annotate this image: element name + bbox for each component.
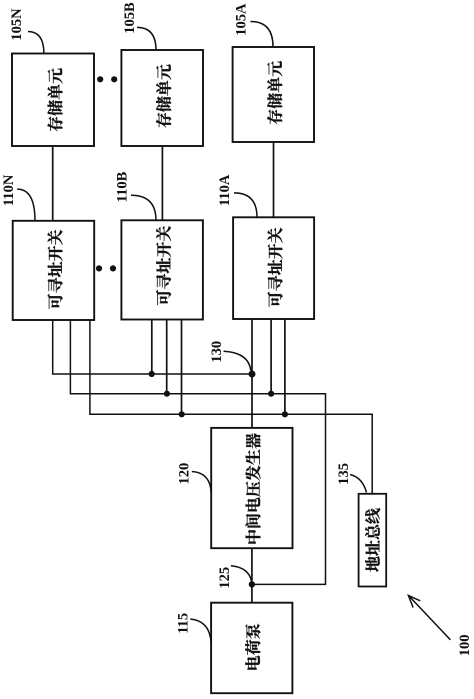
label 100	[457, 635, 473, 657]
leader 120	[192, 472, 212, 495]
wire 110N out3 + bus3	[90, 320, 372, 494]
svg-text:135: 135	[336, 463, 352, 485]
svg-text:105A: 105A	[233, 3, 249, 36]
memory cell text 105B	[156, 64, 171, 127]
ellipsis dot row1 b	[111, 76, 117, 82]
wire 110A out1 node130 to generator	[251, 319, 253, 428]
svg-text:125: 125	[217, 567, 233, 589]
ellipsis dot row2 b	[110, 265, 116, 271]
charge pump box 115	[211, 603, 292, 694]
charge pump text	[245, 624, 260, 670]
wire 110A out3	[284, 319, 286, 414]
svg-text:105B: 105B	[122, 2, 138, 34]
addressable switch box 110B	[121, 220, 202, 319]
addressable switch text 110N	[47, 230, 62, 309]
leader 125	[231, 566, 252, 582]
leader 110A	[234, 193, 257, 217]
svg-text:130: 130	[209, 341, 225, 363]
addressable switch text 110B	[156, 226, 171, 305]
address bus box 135	[359, 494, 387, 587]
leader 130	[224, 351, 251, 370]
label 125	[217, 567, 233, 589]
svg-text:100: 100	[457, 635, 473, 657]
ellipsis dot row2 a	[96, 265, 102, 271]
node 130 junction	[249, 371, 256, 378]
wire 110B out1	[151, 320, 153, 375]
label 110B	[114, 171, 130, 202]
label 105A	[233, 3, 249, 36]
address bus text	[365, 508, 380, 571]
label 105B	[122, 2, 138, 34]
label 135	[336, 463, 352, 485]
memory cell box 105N	[12, 54, 94, 147]
memory cell text 105A	[267, 61, 282, 124]
intermediate voltage generator text	[245, 433, 260, 543]
node 125 junction	[249, 581, 255, 587]
wire 105A to 110A	[273, 142, 275, 217]
label 130	[209, 341, 225, 363]
junction 110A bus3	[282, 411, 288, 417]
addressable switch text 110A	[267, 228, 282, 307]
label 120	[177, 463, 193, 485]
wire 105N to 110N	[52, 146, 54, 221]
memory cell box 105B	[121, 50, 203, 146]
leader 105A	[251, 22, 274, 47]
arrow 100	[408, 595, 450, 639]
addressable switch box 110A	[233, 217, 314, 319]
junction 110B bus3	[179, 411, 185, 417]
wire 110N out1 + bus1	[53, 320, 252, 374]
addressable switch box 110N	[13, 221, 95, 320]
wire 110N out2 + bus2	[70, 320, 325, 584]
svg-text:115: 115	[175, 613, 191, 634]
label 110N	[1, 174, 17, 206]
junction 110B bus1	[149, 371, 155, 377]
svg-text:105N: 105N	[9, 8, 25, 41]
leader 110B	[131, 195, 156, 220]
wire 110B out2	[166, 320, 168, 394]
label 115	[175, 613, 191, 634]
svg-text:120: 120	[177, 463, 193, 485]
intermediate voltage generator box 120	[211, 428, 292, 548]
svg-text:110A: 110A	[217, 174, 233, 206]
wire 105B to 110B	[161, 146, 163, 220]
wire generator to charge pump node125	[251, 548, 253, 603]
label 110A	[217, 174, 233, 206]
memory cell text 105N	[47, 68, 62, 131]
leader 110N	[17, 189, 35, 221]
label 105N	[9, 8, 25, 41]
junction 110B bus2	[164, 391, 170, 397]
svg-text:110N: 110N	[1, 174, 17, 206]
leader 115	[190, 619, 211, 643]
leader 135	[350, 475, 367, 493]
wire 110B out3	[181, 320, 183, 415]
svg-text:110B: 110B	[114, 171, 130, 202]
leader 105B	[137, 27, 156, 50]
leader 105N	[28, 32, 44, 54]
junction 110A bus2	[268, 391, 274, 397]
wire 110A out2	[270, 319, 272, 394]
memory cell box 105A	[233, 47, 314, 142]
ellipsis dot row1 a	[97, 76, 103, 82]
